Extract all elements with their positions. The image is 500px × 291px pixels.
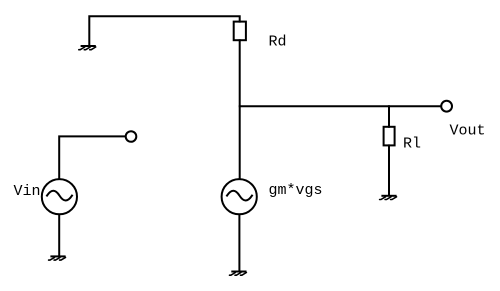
svg-text:Vout: Vout (450, 123, 486, 140)
svg-text:Rl: Rl (403, 136, 421, 153)
svg-text:Rd: Rd (269, 33, 287, 50)
svg-text:Vin: Vin (14, 183, 41, 200)
svg-text:gm*vgs: gm*vgs (269, 182, 323, 199)
